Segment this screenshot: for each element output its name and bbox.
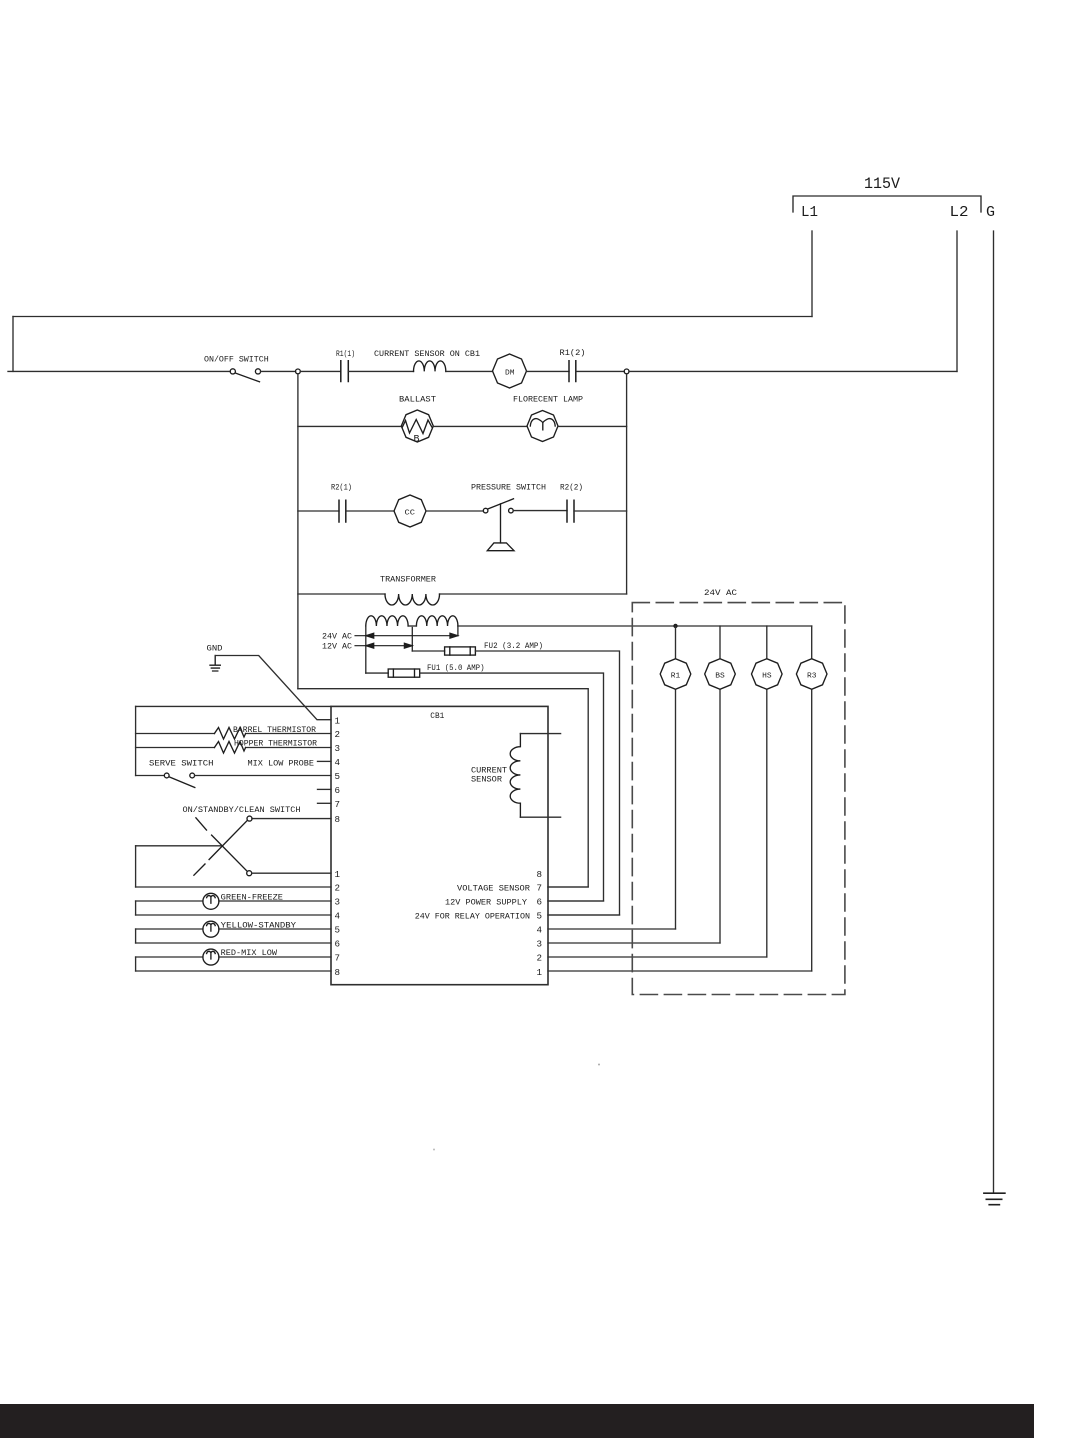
inductor current sensor (inside CB1) — [510, 734, 520, 818]
wire ballast to lamp — [433, 425, 527, 427]
wire left tap to FU1 — [366, 672, 388, 674]
svg-text:PRESSURE SWITCH: PRESSURE SWITCH — [471, 483, 546, 493]
relay coil HS — [752, 659, 783, 690]
svg-text:3: 3 — [537, 939, 543, 950]
relay coil DM — [493, 354, 527, 388]
wire lamp to right branch — [558, 425, 627, 427]
svg-text:8: 8 — [335, 967, 341, 978]
relay coil R3 — [796, 659, 827, 690]
ballast B zigzag — [403, 420, 432, 434]
pin numbers CB1 bottom-left 1-8 — [335, 869, 341, 978]
fuse FU2 — [445, 647, 476, 655]
ground G (bottom right) — [984, 1193, 1005, 1205]
bottom black bar — [0, 1404, 1034, 1438]
wire pin6 stub — [318, 788, 332, 790]
svg-text:115V: 115V — [864, 175, 901, 193]
svg-text:DM: DM — [505, 370, 515, 378]
svg-text:5: 5 — [335, 771, 341, 782]
wire right branch vertical (node B down) — [626, 374, 628, 594]
svg-text:SERVE SWITCH: SERVE SWITCH — [149, 758, 214, 768]
wire FU2 right to pin5 loop — [475, 651, 619, 915]
capacitor R2(1) — [339, 500, 346, 522]
wire main row right segment to L2 — [629, 370, 957, 372]
svg-text:B: B — [414, 435, 420, 446]
svg-text:MIX LOW PROBE: MIX LOW PROBE — [248, 758, 315, 768]
24V AC dashed enclosure — [632, 603, 845, 995]
wire pin4 stub (mix low probe) — [318, 760, 332, 762]
svg-text:R2(1): R2(1) — [331, 483, 352, 493]
wire CC to pressure switch — [426, 510, 483, 512]
wire secondary center tap — [411, 628, 413, 652]
resistor barrel thermistor zigzag — [214, 728, 245, 740]
wire left edge drop — [12, 317, 14, 372]
svg-text:SENSOR: SENSOR — [471, 774, 502, 784]
svg-text:GREEN-FREEZE: GREEN-FREEZE — [221, 892, 283, 902]
wire switch to node A — [261, 370, 296, 372]
lamp yellow-standby — [203, 921, 219, 937]
svg-text:1: 1 — [335, 716, 341, 727]
wire pin1 row to relay R3 — [548, 970, 812, 972]
wire lower pin3 row with lamp green-freeze — [136, 900, 331, 902]
wire pressure switch to R2(2) — [513, 510, 567, 512]
node B (junction main row / right branch) — [624, 369, 629, 374]
lamp green-freeze — [203, 893, 219, 909]
wire center tap to FU2 — [412, 650, 444, 652]
wire lower pin5 row with lamp yellow-standby — [136, 928, 331, 930]
svg-text:24V AC: 24V AC — [322, 632, 352, 642]
wire secondary gap (center) — [408, 625, 416, 627]
svg-text:8: 8 — [537, 869, 543, 880]
pin numbers CB1 top-left 1-8 — [335, 716, 341, 826]
wire pin3 row to relay BS — [548, 942, 720, 944]
wire 24VAC bus to dashed box — [458, 625, 812, 627]
ground GND symbol — [210, 656, 220, 672]
svg-text:FU2 (3.2 AMP): FU2 (3.2 AMP) — [484, 641, 543, 651]
switch on/standby/clean (crossover) — [247, 816, 252, 821]
wire lower pin1 row — [252, 872, 331, 874]
wire lamp hairpin pin5-pin6 — [135, 929, 137, 943]
svg-text:2: 2 — [335, 883, 341, 894]
wire node A to R1(1) — [300, 370, 341, 372]
svg-text:1: 1 — [537, 967, 543, 978]
wire L1 drop — [811, 231, 813, 317]
wire lamp hairpin pin7-pin8 — [135, 957, 137, 971]
node supply 115V bracket — [793, 196, 981, 212]
transformer T1 secondary coil right group — [416, 616, 458, 626]
svg-text:RED-MIX LOW: RED-MIX LOW — [221, 948, 278, 958]
svg-text:8: 8 — [335, 814, 341, 825]
svg-text:12V AC: 12V AC — [322, 642, 352, 652]
fuse FU1 — [388, 669, 420, 677]
dimension 24V AC — [355, 633, 458, 638]
wire R2 row left — [298, 510, 339, 512]
svg-text:HOPPER THERMISTOR: HOPPER THERMISTOR — [234, 739, 317, 749]
wire left bus vertical (switch lead to lower pin2) — [135, 846, 137, 887]
wire relay BS drop — [719, 626, 721, 943]
svg-text:TRANSFORMER: TRANSFORMER — [380, 575, 436, 585]
wire FU1 right to pin6 loop — [420, 673, 604, 901]
dimension 12V AC — [355, 643, 412, 648]
svg-text:24V FOR RELAY OPERATION: 24V FOR RELAY OPERATION — [415, 912, 530, 922]
wire top run to left edge — [13, 316, 812, 318]
wire pin4 row to relay R1 — [548, 928, 676, 930]
svg-text:1: 1 — [335, 869, 341, 880]
svg-text:R1: R1 — [671, 673, 681, 681]
speck — [433, 1149, 435, 1151]
svg-text:HS: HS — [762, 673, 772, 681]
wire left branch vertical (node A down) — [297, 374, 299, 689]
svg-text:12V POWER SUPPLY: 12V POWER SUPPLY — [445, 898, 527, 908]
wire G drop — [993, 231, 995, 1193]
wire ballast row left — [298, 425, 401, 427]
wire pin7 stub — [318, 802, 332, 804]
wire current sensor top stub — [520, 733, 560, 735]
svg-text:R1(2): R1(2) — [560, 348, 586, 358]
svg-text:G: G — [986, 205, 995, 221]
svg-text:4: 4 — [335, 911, 341, 922]
pin numbers CB1 bottom-right 8-1 — [537, 869, 543, 978]
wire pin2 row to relay HS — [548, 956, 767, 958]
svg-text:6: 6 — [537, 897, 543, 908]
wire secondary left tap — [365, 626, 367, 673]
wire left bus vertical upper — [135, 706, 137, 775]
wire GND to pin 1 — [215, 656, 331, 720]
transformer T1 primary line — [298, 593, 627, 595]
node C (junction 24VAC bus / R1) — [673, 624, 677, 628]
wire lower pin2 row — [136, 886, 331, 888]
transformer T1 secondary coil left group — [366, 616, 408, 626]
wire pin3 row with resistor hopper thermistor — [136, 747, 331, 749]
wire left bus top line — [136, 705, 331, 707]
ballast B octagon — [401, 410, 433, 442]
svg-text:VOLTAGE SENSOR: VOLTAGE SENSOR — [457, 884, 530, 894]
svg-text:ON/STANDBY/CLEAN SWITCH: ON/STANDBY/CLEAN SWITCH — [183, 805, 301, 815]
wire pin8 row from on/standby switch — [252, 818, 331, 820]
svg-text:5: 5 — [537, 911, 543, 922]
svg-text:2: 2 — [537, 953, 543, 964]
svg-text:4: 4 — [335, 757, 341, 768]
wire lower pin7 row with lamp red-mix low — [136, 956, 331, 958]
svg-text:3: 3 — [335, 743, 341, 754]
svg-text:7: 7 — [335, 799, 341, 810]
wire current sensor bottom stub — [520, 816, 560, 818]
transformer T1 primary coil — [385, 594, 440, 605]
svg-text:FU1 (5.0 AMP): FU1 (5.0 AMP) — [427, 663, 485, 673]
svg-text:3: 3 — [335, 897, 341, 908]
svg-text:5: 5 — [335, 925, 341, 936]
switch serve switch on pin5 row — [136, 775, 165, 777]
svg-text:R3: R3 — [807, 673, 817, 681]
svg-text:4: 4 — [537, 925, 543, 936]
pressure switch — [483, 508, 488, 513]
node A (junction main row / left branch) — [296, 369, 301, 374]
svg-text:7: 7 — [335, 953, 341, 964]
wire voltage sensor loop (box bottom to pin7) — [298, 689, 588, 887]
capacitor R1(2) — [569, 361, 576, 382]
wire R1(2) to node B — [576, 370, 624, 372]
wire pin2 row with resistor barrel thermistor — [136, 733, 331, 735]
wire R2(2) to right branch — [574, 510, 627, 512]
svg-text:24V AC: 24V AC — [704, 588, 737, 598]
wire R1(1) to current sensor coil — [348, 370, 413, 372]
wire right pin6 stub to 12V loop — [548, 900, 604, 902]
svg-text:6: 6 — [335, 785, 341, 796]
svg-text:7: 7 — [537, 883, 543, 894]
IC CB1 box — [331, 706, 548, 984]
relay coil CC — [394, 495, 426, 527]
wire right pin7 stub to voltage sensor loop — [548, 886, 588, 888]
wire switch common lead — [136, 845, 221, 847]
svg-text:BARREL THERMISTOR: BARREL THERMISTOR — [233, 725, 316, 735]
svg-text:FLORECENT LAMP: FLORECENT LAMP — [513, 395, 583, 405]
resistor hopper thermistor zigzag — [214, 742, 245, 754]
wire relay HS drop — [766, 626, 768, 957]
svg-text:GND: GND — [207, 643, 223, 653]
wire lower pin8 row — [136, 970, 331, 972]
svg-text:6: 6 — [335, 939, 341, 950]
svg-text:R1(1): R1(1) — [336, 349, 355, 359]
lamp red-mix low — [203, 949, 219, 965]
inductor current sensor on CB1 (main row) — [413, 361, 445, 372]
svg-text:R2(2): R2(2) — [560, 483, 583, 493]
wire R2(1) to CC — [346, 510, 394, 512]
svg-text:BALLAST: BALLAST — [399, 395, 436, 405]
wire L2 drop — [956, 231, 958, 371]
wire coil to DM — [446, 370, 493, 372]
svg-text:L2: L2 — [950, 205, 969, 221]
wire DM to R1(2) — [527, 370, 570, 372]
svg-text:CB1: CB1 — [430, 711, 444, 721]
wire main row left segment — [8, 370, 230, 372]
capacitor R1(1) — [341, 361, 349, 382]
wire lamp hairpin pin3-pin4 — [135, 901, 137, 915]
relay coil R1 — [660, 659, 691, 690]
switch S1 ON/OFF — [230, 369, 235, 374]
wire relay R3 drop — [811, 626, 813, 971]
svg-text:YELLOW-STANDBY: YELLOW-STANDBY — [221, 920, 296, 930]
svg-text:CURRENT SENSOR ON CB1: CURRENT SENSOR ON CB1 — [374, 349, 480, 359]
speck — [598, 1064, 600, 1066]
svg-text:ON/OFF SWITCH: ON/OFF SWITCH — [204, 355, 269, 365]
wire lower pin4 row — [136, 914, 331, 916]
svg-text:L1: L1 — [801, 205, 818, 221]
florescent lamp — [527, 411, 558, 442]
capacitor R2(2) — [567, 500, 574, 522]
relay coil BS — [705, 659, 736, 690]
wire relay R1 drop — [675, 626, 677, 929]
wire secondary right tap — [457, 626, 459, 636]
svg-text:BS: BS — [715, 673, 725, 681]
svg-text:2: 2 — [335, 729, 341, 740]
wire lower pin6 row — [136, 942, 331, 944]
wire right pin5 stub to 24V loop — [548, 914, 620, 916]
svg-text:CC: CC — [405, 510, 416, 518]
